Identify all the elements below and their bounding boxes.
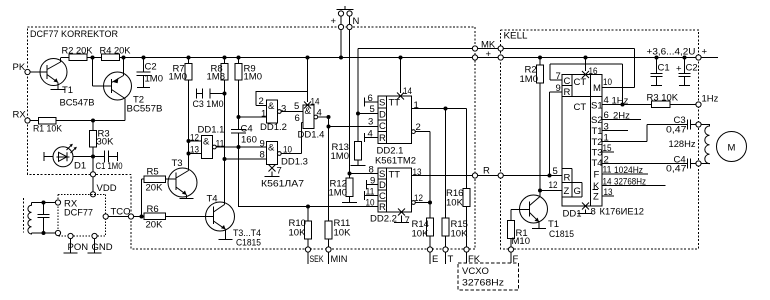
terminal TCO on module	[103, 214, 108, 219]
resistor R6	[144, 204, 166, 231]
svg-text:14: 14	[603, 177, 612, 188]
svg-text:M10: M10	[512, 236, 530, 247]
output F pin 11 1024Hz	[602, 165, 648, 177]
node R1/R3 junction	[91, 119, 95, 123]
output T4 pin 2	[602, 155, 688, 166]
svg-text:7: 7	[556, 71, 561, 82]
svg-text:R: R	[483, 166, 490, 177]
ground T1 emitter	[51, 89, 66, 91]
svg-text:1M8: 1M8	[207, 72, 225, 83]
svg-text:15: 15	[603, 143, 612, 154]
svg-text:13: 13	[190, 145, 199, 156]
gate DD1.4	[294, 101, 329, 154]
ground R12	[342, 202, 357, 204]
svg-text:10: 10	[366, 198, 375, 209]
node pin 12 line	[538, 189, 542, 193]
svg-text:4: 4	[368, 129, 373, 140]
svg-text:BC557B: BC557B	[127, 104, 163, 115]
wire S input	[350, 173, 379, 175]
svg-text:C4: C4	[241, 124, 253, 135]
wire PK to T1 base	[30, 71, 47, 73]
svg-text:R: R	[379, 202, 386, 213]
antenna coil	[28, 203, 32, 235]
svg-text:0,47: 0,47	[666, 164, 687, 175]
svg-text:1024Hz: 1024Hz	[614, 165, 643, 176]
capacitor C2	[137, 56, 163, 88]
node DD1.1 input 13	[187, 152, 191, 156]
node D input	[356, 112, 360, 116]
output K pin 14 32768Hz	[602, 177, 666, 188]
terminal R on korrektor edge	[472, 173, 477, 178]
svg-text:3: 3	[604, 122, 609, 133]
svg-text:SEK: SEK	[310, 254, 324, 265]
transistor T4	[206, 194, 262, 249]
svg-text:&: &	[268, 143, 275, 154]
terminal TCO on box edge	[128, 214, 133, 219]
svg-text:VDD: VDD	[97, 183, 117, 194]
top connector + / N	[331, 6, 360, 27]
svg-text:1M0: 1M0	[244, 72, 262, 83]
resistor R10	[289, 207, 312, 247]
svg-text:F: F	[594, 170, 600, 181]
output 13 DD2.2	[412, 167, 473, 178]
wire C4 down to SEK line	[239, 133, 379, 207]
svg-text:MIN: MIN	[331, 254, 348, 265]
svg-text:S2: S2	[591, 115, 603, 126]
svg-text:5: 5	[370, 104, 375, 115]
node 1Hz feedback	[621, 103, 625, 107]
svg-text:VCXO: VCXO	[462, 266, 489, 277]
svg-text:+: +	[702, 47, 708, 58]
node DD1.3 input 8	[223, 157, 227, 161]
svg-text:2: 2	[259, 96, 264, 107]
svg-text:1Hz: 1Hz	[702, 94, 719, 105]
terminal PK	[13, 62, 31, 75]
svg-text:N: N	[353, 16, 360, 27]
KELL dashed enclosure	[501, 30, 699, 249]
svg-text:G: G	[574, 186, 581, 197]
antenna tuning capacitor	[38, 203, 50, 234]
wire M output up leg	[634, 49, 636, 88]
svg-text:5: 5	[553, 166, 558, 177]
resistor R8	[207, 56, 229, 83]
svg-text:+: +	[331, 16, 337, 27]
svg-text:10: 10	[603, 77, 612, 88]
terminal supply plus	[696, 55, 701, 60]
ground PON	[64, 239, 78, 253]
svg-text:R: R	[564, 173, 571, 184]
svg-text:RX: RX	[13, 110, 27, 121]
wire MK down to DD2.1 D input	[357, 49, 359, 142]
svg-text:R: R	[379, 133, 386, 144]
svg-text:5: 5	[294, 101, 299, 112]
capacitor C3 1M0	[193, 89, 225, 111]
svg-text:30K: 30K	[97, 137, 115, 148]
svg-text:2Hz: 2Hz	[613, 111, 630, 122]
gate DD1.1	[189, 125, 267, 159]
resistor R1	[33, 117, 63, 134]
power pin 8 ground	[578, 203, 596, 218]
power pin 14 DD2.1	[397, 56, 412, 100]
svg-text:13: 13	[604, 187, 613, 198]
svg-text:R3 10K: R3 10K	[647, 93, 679, 104]
ground T3 emitter	[180, 198, 194, 200]
terminal 1Hz	[696, 102, 701, 107]
input D pin 9 stub	[367, 176, 379, 190]
terminal module ant2	[55, 230, 60, 235]
resistor R16	[446, 109, 470, 247]
wire + down to rail	[340, 30, 342, 58]
svg-text:&: &	[268, 101, 275, 112]
svg-text:13: 13	[413, 167, 422, 178]
svg-text:10K: 10K	[289, 228, 307, 239]
wire T3 collector up to DD1.1	[188, 80, 190, 171]
wire antenna bottom	[32, 232, 56, 234]
svg-text:T2: T2	[592, 137, 603, 148]
input R pin 4 stub	[365, 129, 379, 143]
resistor R12	[329, 178, 354, 203]
transistor T1 kell	[520, 195, 575, 240]
node output1/R15	[444, 107, 448, 111]
terminal VDD on box edge	[90, 172, 95, 177]
output T1 pin 3	[602, 122, 628, 133]
terminal MK on korrektor edge	[472, 46, 477, 51]
resistor R9	[235, 56, 262, 83]
svg-text:DCF77: DCF77	[64, 208, 93, 219]
resistor R4	[100, 46, 132, 61]
capacitor C1 kell	[651, 56, 670, 86]
resistor R15	[442, 109, 468, 247]
svg-text:1: 1	[414, 100, 419, 111]
svg-text:11: 11	[603, 165, 612, 176]
svg-text:T1: T1	[592, 126, 603, 137]
svg-text:32768Hz: 32768Hz	[614, 177, 646, 188]
svg-text:DD1: DD1	[563, 209, 582, 220]
transistor T1	[40, 58, 95, 109]
svg-text:T: T	[448, 254, 454, 265]
svg-text:К561ЛА7: К561ЛА7	[261, 179, 304, 190]
input C pin 11 stub	[365, 187, 379, 201]
wire R line to IC	[503, 175, 562, 177]
capacitor C1 1M0	[93, 151, 123, 173]
svg-text:E: E	[432, 254, 438, 265]
wire N down to DD2.2 S input	[349, 30, 351, 178]
svg-text:8: 8	[369, 165, 374, 176]
resistor R3 30K	[90, 121, 115, 157]
svg-text:CT: CT	[574, 77, 587, 88]
svg-text:K: K	[593, 181, 600, 192]
wire 1Hz feedback down leg	[622, 64, 624, 105]
svg-text:1M0: 1M0	[520, 74, 538, 85]
IC DD1 K176IE12	[562, 75, 603, 207]
svg-text:10K: 10K	[334, 228, 352, 239]
svg-text:R4 20K: R4 20K	[100, 46, 132, 57]
ground T1 kell emitter	[532, 228, 546, 230]
svg-text:16: 16	[589, 66, 598, 77]
svg-text:C2: C2	[145, 62, 157, 73]
svg-text:Z: Z	[564, 186, 570, 197]
svg-text:1M0: 1M0	[145, 74, 163, 85]
wire RX to R1	[30, 120, 38, 122]
resistor R2 kell	[520, 56, 544, 86]
wire junction down to T2 base	[93, 58, 112, 87]
flip-flop DD2.2	[378, 168, 412, 213]
svg-text:TCO: TCO	[111, 207, 131, 218]
svg-text:DD1.1: DD1.1	[198, 125, 225, 136]
wire antenna top	[32, 202, 56, 204]
wire R6 to T4 base	[142, 216, 214, 218]
svg-text:DD2.2: DD2.2	[370, 214, 397, 225]
wire R5 to T3 base	[166, 178, 177, 180]
ground GND	[88, 239, 102, 253]
output 2 DD2.1	[412, 122, 431, 203]
svg-text:32768Hz: 32768Hz	[462, 278, 504, 289]
wire MK line inside KELL	[503, 48, 520, 50]
node DD2.2 S input	[348, 172, 352, 176]
wire VDD	[92, 157, 94, 192]
input S pin 6 stub	[365, 93, 379, 107]
svg-text:R1 10K: R1 10K	[33, 124, 63, 135]
svg-text:12: 12	[190, 133, 199, 144]
output M pin 10	[602, 77, 635, 88]
wire R3 to 1Hz terminal	[670, 104, 696, 106]
terminal R on KELL edge	[498, 173, 503, 178]
node DD1.1 output	[237, 145, 241, 149]
svg-text:PK: PK	[13, 62, 26, 73]
svg-text:11: 11	[366, 187, 375, 198]
output T2 pin 1	[602, 125, 688, 144]
svg-text:C1 1M0: C1 1M0	[96, 161, 123, 172]
svg-text:7: 7	[405, 215, 410, 226]
svg-text:2: 2	[416, 122, 421, 133]
svg-text:C3 1M0: C3 1M0	[193, 99, 224, 110]
svg-text:DD1.3: DD1.3	[281, 157, 308, 168]
wire R between boxes	[478, 175, 499, 177]
terminal module ant1	[55, 200, 60, 205]
svg-text:12: 12	[549, 180, 558, 191]
resistor R14	[412, 203, 434, 247]
node R2/R4 junction	[91, 56, 95, 60]
svg-text:M: M	[728, 143, 736, 154]
DCF77 KORREKTOR dashed enclosure	[28, 27, 476, 249]
wire pin 12	[540, 190, 562, 192]
svg-text:KELL: KELL	[504, 31, 528, 42]
wire pin 7 route	[550, 64, 623, 80]
wire TCO	[108, 216, 141, 218]
svg-text:R2 20K: R2 20K	[62, 46, 94, 57]
svg-text:C: C	[564, 76, 571, 87]
resistor R5	[144, 167, 166, 194]
svg-text:+: +	[486, 49, 492, 60]
svg-text:+: +	[676, 64, 682, 75]
svg-text:D: D	[379, 110, 386, 121]
svg-text:F: F	[513, 254, 519, 265]
resistor R2	[62, 46, 94, 61]
terminal PON	[68, 233, 73, 238]
svg-text:6: 6	[295, 113, 300, 124]
svg-text:TT: TT	[389, 98, 401, 109]
output S2 pin 6 2Hz	[602, 110, 641, 122]
resistor R13	[331, 142, 362, 166]
svg-text:R6: R6	[147, 204, 159, 215]
svg-text:160: 160	[241, 135, 257, 146]
gate DD1.3	[225, 139, 308, 168]
terminal GND	[92, 233, 97, 238]
svg-text:DD1.2: DD1.2	[260, 122, 287, 133]
svg-text:CT: CT	[574, 102, 587, 113]
flip-flop DD2.1	[378, 96, 412, 144]
ground T4 emitter	[219, 239, 233, 241]
svg-text:R5: R5	[147, 167, 159, 178]
node DD1.1 input 12	[187, 139, 191, 143]
svg-text:S: S	[379, 169, 385, 180]
svg-text:11: 11	[216, 139, 225, 150]
svg-text:14: 14	[403, 86, 412, 97]
terminal E	[427, 247, 432, 252]
svg-text:8: 8	[260, 150, 265, 161]
svg-text:D1: D1	[74, 161, 86, 172]
motor winding coil	[701, 125, 709, 164]
svg-text:C1815: C1815	[549, 229, 574, 240]
svg-text:T4: T4	[592, 158, 603, 169]
power pin 16	[582, 56, 598, 79]
svg-text:К176ИЕ12: К176ИЕ12	[600, 207, 645, 218]
node DD1.4 output	[327, 115, 331, 119]
svg-text:128Hz: 128Hz	[669, 139, 696, 150]
resistor R11	[325, 218, 351, 247]
transistor T3	[168, 158, 197, 199]
terminal SEK	[305, 247, 310, 252]
wire DD1.4 output down to R11/MIN	[328, 117, 330, 221]
svg-text:1M0: 1M0	[331, 151, 349, 162]
capacitor C4 kell 0,47	[666, 155, 696, 175]
svg-text:6: 6	[368, 93, 373, 104]
node C clock branch	[327, 125, 331, 129]
terminal N on box top	[347, 24, 352, 29]
transistor T2	[104, 58, 163, 121]
wire pin 9 route	[550, 92, 563, 176]
svg-text:1Hz: 1Hz	[612, 96, 629, 107]
wire T1 base to R1	[511, 210, 530, 221]
terminal T	[443, 247, 448, 252]
node R10 top	[306, 205, 310, 209]
svg-text:M: M	[593, 83, 601, 94]
output Z pin 13	[602, 187, 614, 198]
output S1 pin 4 1Hz	[602, 95, 652, 107]
wire D input	[358, 113, 378, 115]
svg-text:1: 1	[604, 133, 609, 144]
svg-text:20K: 20K	[146, 220, 164, 231]
wire to DD2.1 C input	[329, 126, 379, 128]
capacitor C3 kell 0,47	[666, 115, 696, 136]
svg-text:T3: T3	[172, 158, 183, 169]
resistor R1 M10	[508, 221, 530, 248]
svg-text:R: R	[564, 87, 571, 98]
output T3 pin 15	[602, 143, 614, 154]
terminal MIN	[326, 247, 331, 252]
wire MK line	[358, 48, 635, 50]
output 12 DD2.2	[412, 193, 431, 204]
gate DD1.2	[239, 92, 308, 134]
svg-text:DCF77 KORREKTOR: DCF77 KORREKTOR	[30, 29, 118, 40]
svg-text:1M0: 1M0	[169, 72, 187, 83]
terminal MK on KELL edge	[498, 46, 503, 51]
node DD1.2 input 1	[237, 115, 241, 119]
svg-text:12: 12	[414, 193, 423, 204]
supply rail	[61, 57, 718, 59]
resistor R7	[169, 56, 193, 83]
svg-text:D: D	[379, 180, 386, 191]
svg-text:4: 4	[317, 108, 322, 119]
node R8/C3	[223, 92, 227, 96]
svg-text:9: 9	[370, 176, 375, 187]
node TCO/R5/R6	[140, 215, 144, 219]
svg-text:10: 10	[283, 145, 292, 156]
svg-text:C: C	[379, 121, 386, 132]
svg-text:14: 14	[311, 97, 320, 108]
terminal C3 row	[696, 122, 701, 127]
LED D1	[44, 144, 93, 172]
svg-text:10K: 10K	[451, 229, 469, 240]
svg-text:3: 3	[281, 104, 286, 115]
node T2 emitter on rail	[122, 56, 126, 60]
svg-text:8: 8	[591, 207, 596, 218]
svg-text:9: 9	[556, 83, 561, 94]
svg-text:S1: S1	[591, 101, 603, 112]
terminal + on box top	[338, 24, 343, 29]
svg-text:0,47: 0,47	[666, 125, 687, 136]
ground R13	[351, 165, 366, 167]
output 1 DD2.1	[412, 100, 467, 111]
node pin 9 branch	[548, 174, 552, 178]
svg-text:C1: C1	[658, 63, 670, 74]
svg-text:Z: Z	[593, 192, 599, 203]
svg-text:S: S	[379, 98, 385, 109]
svg-text:T1: T1	[62, 85, 73, 96]
svg-text:3: 3	[368, 117, 373, 128]
wire T4 collector up to R8	[224, 80, 226, 205]
svg-text:1M0: 1M0	[329, 188, 347, 199]
svg-text:C2: C2	[686, 63, 698, 74]
svg-text:K561TM2: K561TM2	[375, 156, 416, 167]
svg-text:10K: 10K	[446, 198, 464, 209]
node E line	[428, 201, 432, 205]
VCXO dashed box	[458, 263, 519, 290]
svg-text:6: 6	[604, 110, 609, 121]
svg-text:TT: TT	[389, 170, 401, 181]
terminal C4 row	[696, 161, 701, 166]
svg-text:BC547B: BC547B	[60, 98, 95, 109]
node D1/C1/VDD junction	[91, 155, 95, 159]
power pin 14 DD1.4	[304, 56, 320, 109]
terminal plus on korrektor edge	[472, 55, 477, 60]
svg-text:+3,6...4,2U: +3,6...4,2U	[647, 47, 696, 58]
svg-text:20K: 20K	[146, 183, 164, 194]
wire R9 down to C4	[238, 80, 240, 130]
svg-text:7: 7	[277, 166, 282, 177]
antenna ferrite core	[23, 198, 25, 233]
power pin 7 ground DD1.3	[265, 165, 282, 177]
svg-text:1: 1	[261, 109, 266, 120]
svg-text:C1815: C1815	[236, 238, 261, 249]
svg-text:9: 9	[260, 139, 265, 150]
resistor R3 10K kell	[647, 93, 679, 108]
capacitor C2 kell	[676, 56, 698, 86]
svg-text:&: &	[203, 137, 210, 148]
svg-text:4: 4	[604, 95, 609, 106]
RX DCF77 module box	[58, 194, 106, 236]
wire up to R5	[142, 179, 145, 217]
